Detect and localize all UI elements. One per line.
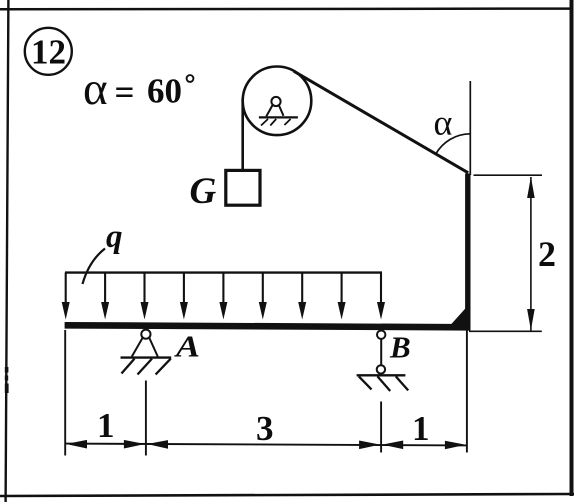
support B base line <box>357 374 406 376</box>
frame border right <box>570 0 574 496</box>
wall post <box>465 174 470 330</box>
frame border left <box>6 0 9 502</box>
distributed load line <box>65 271 382 273</box>
frame border bottom <box>0 494 574 496</box>
svg-text:=: = <box>115 73 135 112</box>
support A triangle legs <box>132 338 143 357</box>
svg-text:3: 3 <box>256 409 274 448</box>
rope vertical to weight G <box>241 98 244 170</box>
pulley support hatches <box>261 119 268 126</box>
bottom dim line <box>65 444 467 446</box>
ext tick right end <box>466 331 468 453</box>
ext tick A <box>145 381 147 456</box>
support B upper circle <box>377 331 385 339</box>
ext tick left end <box>64 330 66 456</box>
support B link <box>380 339 382 366</box>
task number badge circle 12 <box>25 28 72 75</box>
corner fillet gusset <box>451 306 469 326</box>
support B lower circle <box>377 365 385 373</box>
dim 2 bottom extension <box>469 330 542 332</box>
ext tick B <box>380 402 382 453</box>
support A pin circle <box>141 330 150 339</box>
svg-text:1: 1 <box>412 409 430 448</box>
rope slanted to wall anchor <box>294 71 468 173</box>
dim 2 line <box>530 177 532 331</box>
frame border top <box>0 7 572 10</box>
pulley pin support legs <box>266 105 272 116</box>
svg-text:60: 60 <box>147 72 182 111</box>
svg-text:A: A <box>174 329 200 364</box>
pulley support base line <box>259 116 298 118</box>
svg-text:2: 2 <box>538 234 556 274</box>
support B hatches <box>359 376 372 389</box>
dim 2 arrow up <box>527 177 535 198</box>
left border scan blobs <box>5 367 9 373</box>
angle arc alpha <box>436 134 471 155</box>
pulley pin circle <box>271 97 280 106</box>
dim 2 top extension <box>474 174 543 176</box>
svg-text:G: G <box>190 171 217 212</box>
svg-text:12: 12 <box>31 33 66 72</box>
svg-text:1: 1 <box>97 406 115 445</box>
pulley wheel <box>243 67 312 136</box>
svg-text:B: B <box>389 330 411 365</box>
vertical reference line above anchor <box>469 81 471 175</box>
beam <box>65 325 471 327</box>
support A hatches <box>122 359 135 374</box>
support A base line <box>121 356 172 358</box>
dim 2 arrow down <box>527 309 535 330</box>
svg-text:α: α <box>434 103 453 143</box>
svg-text:α: α <box>83 63 108 115</box>
load arrows <box>62 273 385 320</box>
weight G block <box>226 170 260 205</box>
dim arrows <box>66 440 466 449</box>
svg-text:q: q <box>106 219 123 255</box>
